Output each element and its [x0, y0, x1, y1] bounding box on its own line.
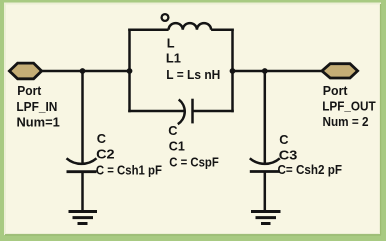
- wire: C2 bottom lead: [81, 172, 84, 212]
- capacitor C1 value label: [168, 123, 219, 169]
- svg-text:C: C: [279, 132, 288, 147]
- svg-text:C3: C3: [279, 147, 298, 162]
- svg-text:C= Csh2 pF: C= Csh2 pF: [278, 162, 343, 177]
- node: junction C3 tap: [262, 68, 268, 74]
- capacitor C3: [250, 158, 280, 171]
- port P1 label: [16, 83, 59, 130]
- svg-text:LPF_IN: LPF_IN: [16, 99, 57, 114]
- node: junction LC block right: [230, 68, 236, 74]
- svg-text:C = CspF: C = CspF: [169, 154, 219, 169]
- port P2 label: [322, 83, 376, 129]
- wire: bottom left segment to C1: [128, 110, 184, 113]
- wire: C3 bottom lead: [264, 172, 267, 212]
- ground (left): [69, 212, 98, 224]
- frame inner shade bottom: [5, 234, 381, 236]
- inductor L1 value label: [166, 35, 220, 82]
- svg-text:C: C: [168, 123, 177, 138]
- capacitor C3 value label: [278, 132, 343, 177]
- port P2 LPF_OUT: [322, 64, 358, 78]
- svg-text:L = Ls nH: L = Ls nH: [166, 67, 220, 82]
- svg-text:Port: Port: [17, 83, 42, 98]
- wire: C3 top lead: [264, 71, 267, 163]
- svg-text:L1: L1: [166, 50, 181, 65]
- svg-text:C2: C2: [96, 146, 115, 161]
- node: junction C2 tap: [80, 68, 86, 74]
- port P1 LPF_IN: [9, 63, 41, 79]
- ground (right): [251, 212, 281, 224]
- wire: C2 top lead: [81, 71, 84, 163]
- capacitor C2: [67, 158, 97, 171]
- wire: top left segment to inductor: [128, 29, 168, 32]
- capacitor C2 value label: [96, 131, 162, 177]
- capacitor C1: [178, 99, 193, 125]
- svg-text:Num = 2: Num = 2: [323, 114, 369, 129]
- wire: top right segment from inductor: [211, 29, 234, 32]
- svg-text:L: L: [167, 35, 175, 50]
- svg-text:Port: Port: [323, 83, 348, 98]
- frame inner shade right: [380, 4, 382, 235]
- wire: LC block to port2: [231, 70, 322, 73]
- wire: port1 to LC block: [41, 70, 131, 73]
- wire: LC block right vertical: [231, 29, 234, 113]
- wire: LC block left vertical: [128, 29, 131, 113]
- svg-text:Num=1: Num=1: [17, 115, 60, 130]
- svg-text:C1: C1: [169, 139, 185, 154]
- svg-text:C = Csh1 pF: C = Csh1 pF: [96, 162, 162, 177]
- svg-text:LPF_OUT: LPF_OUT: [322, 98, 376, 113]
- node: junction LC block left: [127, 68, 133, 74]
- svg-text:C: C: [97, 131, 106, 146]
- wire: bottom right segment from C1: [193, 110, 234, 113]
- inductor L1: [162, 14, 212, 30]
